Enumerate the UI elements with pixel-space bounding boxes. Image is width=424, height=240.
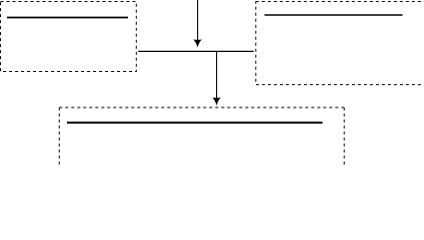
box top-left (dashed): [1, 2, 137, 72]
rule line in top-left box: [7, 17, 128, 19]
box bottom top border (dashed, soft gray): [59, 107, 344, 109]
arrow 1 shaft (from top edge down): [197, 0, 199, 41]
rule line in top-right box: [265, 14, 403, 16]
box bottom left border (dashed, cut off at bottom edge): [58, 108, 60, 168]
rule line in bottom box: [67, 122, 323, 124]
box top-right (dashed, cut off at right edge): [256, 2, 424, 85]
arrow 2 shaft (from wire down to bottom box): [216, 51, 218, 98]
box bottom right border (dashed, cut off at bottom edge): [343, 108, 345, 168]
arrow 2 head: [213, 98, 220, 104]
wire (horizontal connector between top boxes): [138, 50, 254, 52]
arrow 1 head: [194, 40, 201, 46]
